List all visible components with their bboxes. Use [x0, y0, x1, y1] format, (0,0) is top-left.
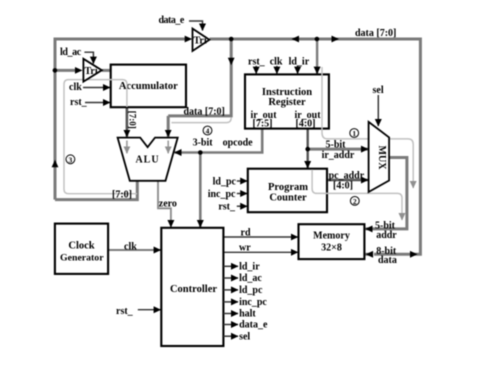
svg-text:ld_ac: ld_ac	[239, 273, 262, 284]
ghost arrow inside ALU left	[126, 141, 128, 154]
tri-state buffer Tri (data_e)	[193, 29, 210, 51]
svg-text:data [7:0]: data [7:0]	[355, 28, 396, 39]
clock generator box	[55, 224, 108, 274]
wire ld_pc stub into PC	[237, 180, 247, 182]
instruction register box	[245, 74, 329, 129]
svg-text:data [7:0]: data [7:0]	[184, 106, 225, 117]
svg-text:2: 2	[353, 197, 357, 206]
svg-text:rst_: rst_	[116, 306, 134, 317]
program counter box	[248, 169, 327, 213]
svg-text:[4:0]: [4:0]	[296, 119, 316, 130]
wire clk stub into IR	[276, 66, 278, 74]
svg-text:Counter: Counter	[269, 193, 307, 204]
wire data bus branch to ALU	[168, 39, 231, 116]
wire rst_ stub into Controller	[138, 309, 161, 311]
svg-text:Clock: Clock	[68, 240, 94, 251]
junction dot opcode branch	[198, 150, 203, 155]
wire opcode from IR to ALU	[175, 129, 263, 153]
wire accumulator output to ALU	[126, 107, 129, 137]
wire data bus branch to IR	[316, 39, 318, 74]
svg-text:sel: sel	[239, 331, 250, 342]
svg-text:ld_ir: ld_ir	[289, 57, 310, 68]
svg-text:4: 4	[206, 127, 210, 136]
wire wr Controller to Memory	[223, 251, 297, 253]
svg-text:rst_: rst_	[218, 201, 236, 212]
wire light net2 pc_addr routed path	[312, 170, 402, 221]
svg-text:inc_pc: inc_pc	[239, 297, 267, 308]
arrow bus direction down on data_e branch	[228, 58, 235, 66]
wire light feedback ALU-to-Accumulator inner path	[64, 80, 137, 194]
node circle 1	[350, 129, 359, 138]
svg-text:opcode: opcode	[223, 137, 254, 148]
svg-text:wr: wr	[239, 243, 251, 254]
controller output ld_ac	[223, 277, 238, 279]
svg-text:clk: clk	[69, 82, 82, 93]
arrow bus into left Tri	[75, 67, 83, 74]
node circle 4	[203, 126, 212, 135]
wire opcode branch to Controller	[199, 153, 202, 228]
svg-text:Controller: Controller	[170, 284, 217, 295]
ALU trapezoid	[118, 138, 178, 181]
wire ALU output loop	[55, 181, 137, 200]
wire memory data to bus arrows	[364, 253, 372, 256]
wire ir_addr to MUX	[308, 148, 368, 151]
svg-text:rst_: rst_	[70, 97, 88, 108]
svg-text:Tri: Tri	[85, 66, 98, 77]
arrow bus direction up on ALU loop	[52, 160, 59, 168]
wire top data bus	[55, 39, 420, 254]
svg-text:rst_: rst_	[248, 57, 266, 68]
controller output sel	[223, 335, 238, 337]
svg-text:data: data	[378, 255, 397, 266]
svg-text:[4:0]: [4:0]	[333, 181, 353, 192]
tri-state buffer Tri (ld_ac)	[83, 59, 101, 82]
svg-text:data_e: data_e	[159, 15, 185, 26]
arrow memory data into memory	[366, 251, 374, 258]
wire sel stub into MUX	[377, 95, 379, 126]
svg-text:zero: zero	[159, 198, 177, 209]
svg-text:Generator: Generator	[60, 252, 104, 263]
wire rst_ stub into Accumulator	[85, 102, 110, 104]
svg-text:rd: rd	[241, 228, 251, 239]
svg-text:ld_pc: ld_pc	[239, 285, 263, 296]
accumulator box	[111, 65, 186, 108]
wire ld_ir stub into IR	[297, 66, 299, 74]
svg-text:inc_pc: inc_pc	[208, 189, 236, 200]
svg-text:3-bit: 3-bit	[193, 137, 214, 148]
svg-text:5-bit: 5-bit	[326, 140, 347, 151]
svg-text:clk: clk	[270, 57, 283, 68]
wire light net4 data shadow	[172, 118, 232, 123]
controller output ld_ir	[223, 265, 238, 267]
arrow bus into right Tri	[185, 36, 193, 43]
svg-text:sel: sel	[373, 85, 384, 96]
arrow bus direction left	[292, 36, 300, 43]
svg-text:ld_ir: ld_ir	[239, 262, 260, 273]
svg-text:3: 3	[69, 155, 73, 164]
junction dot data_e branch	[229, 37, 234, 42]
wire light net1 ir_addr routed path	[322, 67, 413, 188]
controller output halt	[223, 313, 238, 315]
wire data_e elbow into Tri	[189, 21, 203, 31]
wire MUX output to Memory addr	[366, 158, 407, 229]
svg-text:addr: addr	[376, 230, 397, 241]
svg-text:32×8: 32×8	[321, 242, 342, 253]
svg-text:MUX: MUX	[376, 146, 387, 171]
svg-text:Register: Register	[268, 97, 306, 108]
junction dot accumulator feed	[53, 68, 58, 73]
controller box	[161, 228, 223, 346]
wire rst_ stub into PC	[237, 205, 247, 207]
svg-text:data_e: data_e	[239, 320, 268, 331]
mux shape	[369, 122, 390, 192]
wire zero from ALU to Controller	[158, 181, 171, 227]
wire ir_out[4:0] to PC	[307, 129, 309, 168]
memory box	[299, 224, 365, 259]
svg-text:Accumulator: Accumulator	[119, 81, 178, 92]
node circle 3	[66, 155, 75, 164]
svg-text:Tri: Tri	[194, 36, 207, 47]
svg-text:ir_addr: ir_addr	[322, 150, 355, 161]
svg-text:ld_pc: ld_pc	[213, 176, 237, 187]
svg-text:halt: halt	[239, 309, 256, 320]
junction dot IR branch	[315, 37, 320, 42]
svg-text:Program: Program	[268, 182, 308, 193]
svg-text:[7:5]: [7:5]	[253, 119, 273, 130]
ghost arrow inside ALU right	[167, 141, 169, 154]
junction dot ir_addr branch	[305, 147, 310, 152]
svg-text:1: 1	[352, 129, 356, 138]
controller output inc_pc	[223, 301, 238, 303]
svg-text:[7:0]: [7:0]	[112, 190, 132, 201]
arrow memory data onto bus	[410, 251, 418, 258]
wire pc_addr to MUX	[327, 179, 368, 181]
wire inc_pc stub into PC	[237, 193, 247, 195]
svg-text:[7:0]: [7:0]	[128, 111, 138, 129]
node circle 2	[350, 197, 359, 206]
svg-text:ld_ac: ld_ac	[60, 47, 82, 58]
wire clk stub into Accumulator	[83, 87, 110, 89]
svg-text:Memory: Memory	[313, 231, 350, 242]
wire rst_ stub into IR	[255, 66, 257, 74]
controller output data_e	[223, 324, 238, 326]
wire accumulator input from Tri	[55, 69, 111, 72]
wire clk from Clock Generator to Controller	[108, 249, 161, 251]
wire ld_ac elbow into Tri	[84, 52, 93, 63]
wire rd Controller to Memory	[223, 236, 297, 238]
controller output ld_pc	[223, 289, 238, 291]
svg-text:ALU: ALU	[135, 154, 159, 165]
arrow bus direction right	[332, 36, 340, 43]
svg-text:clk: clk	[124, 241, 137, 252]
